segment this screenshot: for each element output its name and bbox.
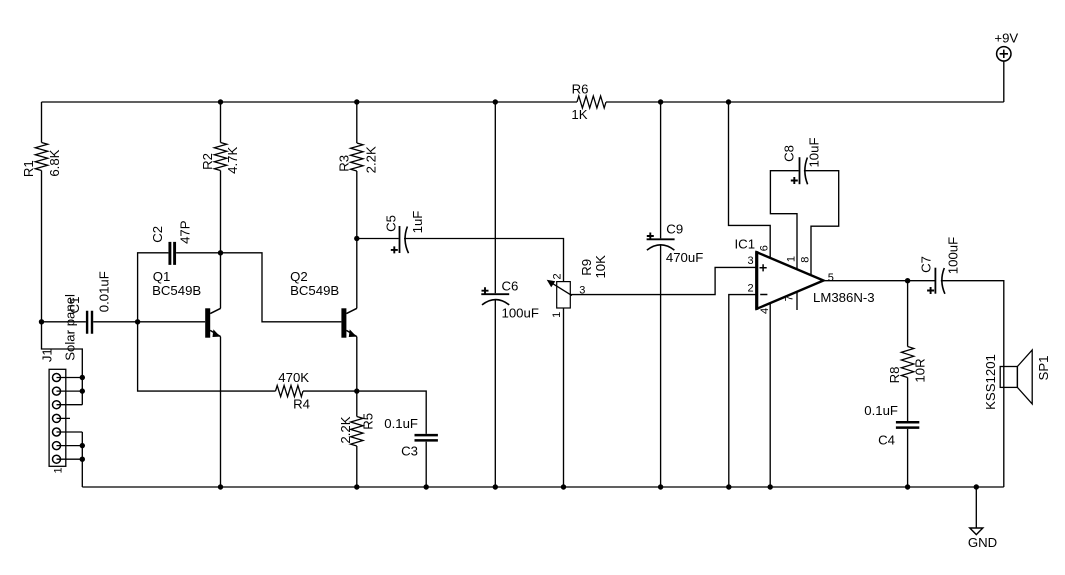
wire C3 bottom to ground (425, 442, 427, 487)
svg-text:IC1: IC1 (735, 237, 756, 252)
resistor R6 (577, 96, 606, 108)
wire coupling Q1 collector to Q2 base (221, 253, 342, 322)
wire IC1 pin 6 supply branch (729, 102, 771, 258)
svg-text:4.7K: 4.7K (225, 147, 240, 174)
wire top rail left of R6 (42, 101, 578, 103)
svg-text:470K: 470K (278, 370, 309, 385)
capacitor C9 (647, 239, 675, 250)
svg-text:4: 4 (759, 308, 771, 314)
wire R3 top lead (356, 102, 358, 143)
wire C1 to Q1 base (93, 321, 205, 323)
op-amp IC1 (757, 251, 824, 310)
svg-text:2: 2 (747, 282, 753, 294)
resistor R8 (901, 347, 913, 378)
svg-text:0.1uF: 0.1uF (384, 416, 418, 431)
wire +9V drop (1003, 61, 1005, 102)
wire IC1 pin 1 to C8 (770, 171, 798, 270)
wire R9 bottom to ground (563, 308, 565, 487)
svg-text:C2: C2 (150, 226, 165, 243)
capacitor C4 (896, 422, 919, 427)
wire R5 top lead (356, 391, 358, 416)
svg-text:3: 3 (579, 284, 585, 296)
svg-text:C9: C9 (666, 222, 683, 237)
svg-text:C3: C3 (401, 443, 418, 458)
wire bottom ground rail (82, 486, 1004, 488)
capacitor C3 (415, 435, 438, 440)
potentiometer R9 (547, 280, 572, 308)
svg-text:1uF: 1uF (410, 211, 425, 234)
speaker SP1 (1000, 350, 1032, 404)
svg-text:0.1uF: 0.1uF (864, 403, 898, 418)
wire C4 bottom to ground (907, 429, 909, 487)
plus C8 (791, 177, 798, 184)
svg-text:5: 5 (828, 272, 834, 284)
svg-text:C7: C7 (919, 256, 934, 273)
svg-text:7: 7 (784, 295, 796, 301)
resistor R1 (35, 143, 47, 171)
wire R1 bottom to input node (41, 171, 43, 322)
wire IC1 pin 2 to ground (729, 295, 757, 487)
svg-text:10uF: 10uF (806, 137, 821, 167)
svg-text:KSS1201: KSS1201 (983, 354, 998, 410)
svg-text:2.2K: 2.2K (364, 146, 379, 173)
wire input node to C1 (42, 321, 86, 323)
svg-text:R9: R9 (579, 259, 594, 276)
svg-text:3: 3 (747, 255, 753, 267)
svg-text:Solar panel: Solar panel (63, 294, 78, 361)
wire C2 branch from base node (138, 253, 169, 322)
svg-text:R8: R8 (887, 367, 902, 384)
svg-text:R3: R3 (337, 155, 352, 172)
svg-text:100uF: 100uF (502, 306, 539, 321)
resistor R3 (351, 143, 363, 171)
wire R4 to Q2 emitter node (303, 390, 357, 392)
wire IC1 pin 4 to ground (769, 303, 771, 487)
svg-text:C8: C8 (781, 145, 796, 162)
wire R2 bottom to Q1 collector node (220, 171, 222, 253)
svg-text:0.01uF: 0.01uF (97, 271, 112, 312)
wire J1 lower bus (81, 432, 83, 487)
svg-text:C4: C4 (878, 432, 895, 447)
svg-text:2: 2 (552, 273, 564, 279)
capacitor C2 (170, 242, 175, 265)
wire R1 top lead (41, 102, 43, 143)
svg-text:C6: C6 (502, 278, 519, 293)
svg-text:1: 1 (785, 256, 797, 262)
wire Q1 emitter to ground (220, 337, 222, 487)
svg-text:R5: R5 (361, 413, 376, 430)
svg-text:Q2: Q2 (290, 269, 308, 284)
svg-text:10R: 10R (913, 358, 928, 382)
wire R4 branch from base node (138, 322, 276, 391)
svg-text:R6: R6 (572, 81, 589, 96)
plus C5 (391, 246, 398, 253)
wire R2 top lead (220, 102, 222, 143)
svg-text:R2: R2 (200, 153, 215, 170)
svg-text:LM386N-3: LM386N-3 (813, 290, 875, 305)
svg-text:+9V: +9V (994, 31, 1018, 46)
connector J1 (49, 369, 82, 466)
power +9V (997, 47, 1011, 61)
svg-text:6: 6 (758, 245, 770, 251)
svg-text:1K: 1K (571, 107, 587, 122)
plus C9 (647, 233, 654, 240)
capacitor C5 (400, 226, 409, 253)
svg-text:100uF: 100uF (946, 237, 961, 274)
svg-text:10K: 10K (593, 255, 608, 279)
svg-text:R4: R4 (293, 397, 310, 412)
wire C6 top lead (494, 102, 496, 293)
svg-text:C5: C5 (383, 215, 398, 232)
wire R9 wiper to IC1 pin 3 (570, 267, 756, 294)
wire R5 bottom to ground (356, 446, 358, 487)
svg-text:6.8K: 6.8K (47, 149, 62, 176)
svg-text:470uF: 470uF (666, 250, 703, 265)
svg-text:1: 1 (551, 312, 563, 318)
svg-text:Q1: Q1 (153, 269, 171, 284)
svg-text:8: 8 (799, 257, 811, 263)
svg-text:R1: R1 (21, 160, 36, 177)
wire GND stem (975, 487, 977, 528)
svg-text:1: 1 (53, 467, 65, 473)
resistor R2 (214, 143, 226, 171)
wire R8 top lead (907, 281, 909, 347)
wire C3 branch (357, 391, 426, 434)
wire J1 upper bus (42, 322, 83, 405)
capacitor C6 (481, 294, 509, 305)
svg-text:SP1: SP1 (1036, 356, 1051, 381)
wire C2 to collector node (176, 252, 220, 254)
capacitor C1 (87, 311, 92, 334)
wire C7 to speaker (941, 281, 1004, 487)
transistor Q2 (341, 308, 357, 337)
wire C6 bottom to ground (494, 300, 496, 487)
capacitor C7 (935, 268, 945, 294)
wire C5 left lead (357, 238, 399, 240)
resistor R5 (351, 417, 363, 447)
wire C5 output to R9 top (404, 239, 564, 282)
wire IC1 pin 7 stub (796, 292, 798, 310)
svg-text:BC549B: BC549B (152, 283, 201, 298)
wire Q2 emitter to R5 node (356, 337, 358, 391)
wire IC1 pin 5 output (824, 280, 935, 282)
capacitor C8 (800, 157, 808, 184)
svg-text:GND: GND (968, 535, 997, 550)
wire IC1 pin 8 to C8 (804, 171, 839, 276)
wire Q1 collector (220, 253, 222, 308)
wire top rail right of R6 (606, 101, 1004, 103)
plus C6 (482, 287, 489, 294)
resistor R4 (276, 386, 304, 397)
svg-text:47P: 47P (178, 220, 193, 244)
svg-text:J1: J1 (40, 348, 55, 362)
ground (970, 528, 983, 535)
wire R3 bottom to Q2 collector node (356, 171, 358, 239)
svg-text:2.2K: 2.2K (338, 416, 353, 443)
transistor Q1 (205, 308, 221, 337)
wire C9 top lead (660, 102, 662, 238)
svg-text:BC549B: BC549B (290, 283, 339, 298)
plus C7 (927, 287, 934, 294)
wire R8 bottom to C4 (907, 378, 909, 422)
wire C9 bottom to ground (660, 245, 662, 487)
wire Q2 collector (356, 239, 358, 309)
